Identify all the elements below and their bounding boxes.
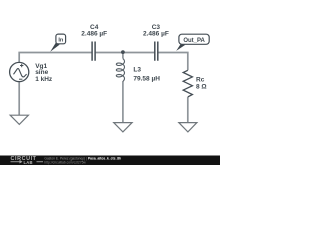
svg-text:L3: L3 <box>133 67 141 74</box>
footer bar <box>0 156 220 166</box>
ground (middle) <box>114 123 132 132</box>
svg-text:LAB: LAB <box>24 160 33 165</box>
node junction dot <box>121 50 125 54</box>
svg-text:In: In <box>58 37 64 43</box>
inductor L3 <box>116 59 124 82</box>
svg-text:Out_PA: Out_PA <box>183 38 205 44</box>
label L3 value <box>133 67 160 83</box>
footer text <box>44 156 121 164</box>
node flag In <box>50 34 65 52</box>
label Vg1 value <box>35 63 53 83</box>
resistor Rc <box>183 70 192 97</box>
capacitor C3 <box>155 42 158 61</box>
capacitor C4 <box>92 42 95 61</box>
voltage source Vg1 <box>10 62 29 81</box>
svg-text:http://circuitlab.com/czt275w: http://circuitlab.com/czt275w <box>44 160 86 164</box>
label C3 value <box>143 24 169 38</box>
svg-text:8 Ω: 8 Ω <box>196 84 207 91</box>
svg-text:1 kHz: 1 kHz <box>35 76 53 83</box>
ground (left) <box>10 115 28 124</box>
label Rc value <box>196 77 207 91</box>
svg-text:79.58 µH: 79.58 µH <box>133 75 160 82</box>
ground (right) <box>179 123 197 132</box>
footer logo CircuitLab <box>11 156 44 165</box>
svg-text:2.486 µF: 2.486 µF <box>143 31 169 38</box>
label C4 value <box>81 24 107 38</box>
node flag Out_PA <box>176 34 209 51</box>
svg-text:2.486 µF: 2.486 µF <box>81 31 107 38</box>
wire <box>19 53 188 123</box>
